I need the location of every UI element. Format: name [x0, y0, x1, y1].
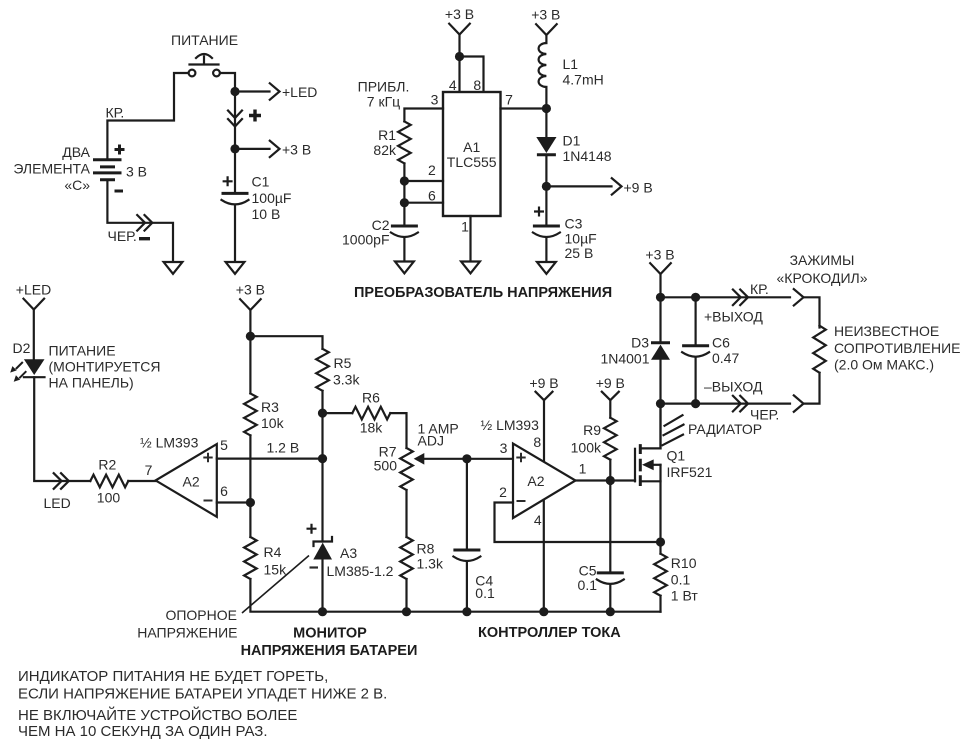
svg-text:+3 В: +3 В: [531, 7, 560, 23]
svg-text:+9 В: +9 В: [529, 375, 558, 391]
svg-text:ПИТАНИЕ: ПИТАНИЕ: [49, 343, 116, 359]
svg-text:5: 5: [220, 437, 228, 453]
svg-text:ПИТАНИЕ: ПИТАНИЕ: [171, 32, 238, 48]
svg-text:2: 2: [499, 484, 507, 500]
svg-text:1.2 В: 1.2 В: [267, 440, 300, 456]
svg-text:ПРИБЛ.: ПРИБЛ.: [358, 79, 410, 95]
svg-text:A1: A1: [463, 139, 480, 155]
svg-text:(2.0 Ом МАКС.): (2.0 Ом МАКС.): [834, 357, 934, 373]
svg-text:1N4148: 1N4148: [563, 148, 612, 164]
svg-text:2: 2: [428, 162, 436, 178]
svg-text:0.47: 0.47: [712, 350, 739, 366]
svg-text:3: 3: [431, 92, 439, 108]
svg-text:НЕ ВКЛЮЧАЙТЕ УСТРОЙСТВО БОЛЕЕ: НЕ ВКЛЮЧАЙТЕ УСТРОЙСТВО БОЛЕЕ: [18, 706, 297, 724]
svg-text:+3 В: +3 В: [645, 247, 674, 263]
svg-text:ЧЕР.: ЧЕР.: [750, 407, 779, 423]
svg-text:+3 В: +3 В: [282, 142, 311, 158]
svg-text:7: 7: [145, 462, 153, 478]
svg-text:+3 В: +3 В: [236, 282, 265, 298]
svg-text:НАПРЯЖЕНИЕ: НАПРЯЖЕНИЕ: [137, 625, 237, 641]
svg-text:C1: C1: [252, 174, 270, 190]
svg-text:D3: D3: [631, 335, 649, 351]
svg-text:8: 8: [533, 434, 541, 450]
svg-text:10k: 10k: [261, 415, 285, 431]
svg-text:СОПРОТИВЛЕНИЕ: СОПРОТИВЛЕНИЕ: [834, 340, 961, 356]
svg-text:КОНТРОЛЛЕР ТОКА: КОНТРОЛЛЕР ТОКА: [478, 625, 621, 641]
svg-text:6: 6: [428, 188, 436, 204]
svg-text:7: 7: [505, 92, 513, 108]
svg-text:ЗАЖИМЫ: ЗАЖИМЫ: [790, 252, 855, 268]
svg-text:1: 1: [461, 219, 469, 235]
svg-text:ЧЕР.: ЧЕР.: [108, 228, 137, 244]
svg-text:½ LM393: ½ LM393: [481, 417, 540, 433]
svg-text:0.1: 0.1: [475, 585, 495, 601]
svg-text:R9: R9: [583, 422, 601, 438]
svg-text:500: 500: [374, 458, 398, 474]
svg-text:МОНИТОР: МОНИТОР: [293, 626, 367, 642]
svg-text:100k: 100k: [571, 440, 602, 456]
svg-text:+9 В: +9 В: [596, 375, 625, 391]
svg-text:7 кГц: 7 кГц: [367, 94, 400, 110]
svg-text:C6: C6: [712, 335, 730, 351]
svg-text:ОПОРНОЕ: ОПОРНОЕ: [165, 607, 237, 623]
svg-text:«КРОКОДИЛ»: «КРОКОДИЛ»: [777, 270, 868, 286]
svg-text:1N4001: 1N4001: [600, 351, 649, 367]
svg-text:НЕИЗВЕСТНОЕ: НЕИЗВЕСТНОЕ: [834, 323, 939, 339]
svg-text:3.3k: 3.3k: [333, 372, 360, 388]
svg-text:+LED: +LED: [16, 282, 51, 298]
svg-text:R2: R2: [98, 457, 116, 473]
svg-text:0.1: 0.1: [578, 577, 598, 593]
svg-text:4: 4: [449, 77, 457, 93]
svg-text:РАДИАТОР: РАДИАТОР: [688, 421, 762, 437]
svg-text:25 В: 25 В: [565, 245, 594, 261]
svg-text:–ВЫХОД: –ВЫХОД: [704, 379, 763, 395]
svg-text:D1: D1: [563, 133, 581, 149]
svg-text:D2: D2: [13, 340, 31, 356]
svg-text:«С»: «С»: [64, 177, 90, 193]
svg-text:3 В: 3 В: [126, 164, 147, 180]
svg-text:R6: R6: [362, 390, 380, 406]
svg-text:4.7mH: 4.7mH: [563, 72, 604, 88]
svg-text:A2: A2: [183, 474, 200, 490]
svg-text:R8: R8: [417, 541, 435, 557]
svg-text:100µF: 100µF: [252, 190, 292, 206]
svg-text:R3: R3: [261, 399, 279, 415]
svg-text:LM385-1.2: LM385-1.2: [327, 563, 394, 579]
svg-text:4: 4: [534, 512, 542, 528]
svg-text:½ LM393: ½ LM393: [140, 435, 199, 451]
svg-text:НАПРЯЖЕНИЯ БАТАРЕИ: НАПРЯЖЕНИЯ БАТАРЕИ: [241, 643, 418, 659]
svg-text:R5: R5: [334, 355, 352, 371]
svg-text:ЕСЛИ НАПРЯЖЕНИЕ БАТАРЕИ УПАДЕТ: ЕСЛИ НАПРЯЖЕНИЕ БАТАРЕИ УПАДЕТ НИЖЕ 2 В.: [18, 686, 387, 703]
svg-text:L1: L1: [563, 56, 579, 72]
svg-text:82k: 82k: [373, 142, 397, 158]
svg-text:+3 В: +3 В: [445, 6, 474, 22]
svg-text:КР.: КР.: [106, 105, 125, 121]
svg-text:ЧЕМ НА 10 СЕКУНД ЗА ОДИН РАЗ.: ЧЕМ НА 10 СЕКУНД ЗА ОДИН РАЗ.: [18, 723, 268, 740]
svg-text:15k: 15k: [264, 562, 288, 578]
svg-text:100: 100: [97, 490, 121, 506]
svg-text:Q1: Q1: [667, 448, 686, 464]
svg-text:+9 В: +9 В: [624, 180, 653, 196]
svg-text:R10: R10: [671, 555, 697, 571]
svg-text:1 Вт: 1 Вт: [671, 588, 699, 604]
svg-text:R1: R1: [378, 127, 396, 143]
svg-text:10 В: 10 В: [252, 206, 281, 222]
svg-text:ПРЕОБРАЗОВАТЕЛЬ НАПРЯЖЕНИЯ: ПРЕОБРАЗОВАТЕЛЬ НАПРЯЖЕНИЯ: [354, 285, 612, 301]
svg-text:ИНДИКАТОР ПИТАНИЯ НЕ БУДЕТ ГОР: ИНДИКАТОР ПИТАНИЯ НЕ БУДЕТ ГОРЕТЬ,: [18, 668, 328, 685]
svg-text:НА ПАНЕЛЬ): НА ПАНЕЛЬ): [49, 375, 134, 391]
svg-text:8: 8: [473, 77, 481, 93]
svg-text:6: 6: [220, 483, 228, 499]
svg-text:+LED: +LED: [282, 84, 317, 100]
svg-text:3: 3: [500, 440, 508, 456]
svg-text:TLC555: TLC555: [447, 154, 497, 170]
svg-text:ADJ: ADJ: [418, 433, 444, 449]
svg-text:1000pF: 1000pF: [342, 232, 389, 248]
svg-text:(МОНТИРУЕТСЯ: (МОНТИРУЕТСЯ: [49, 359, 161, 375]
svg-text:R4: R4: [264, 544, 282, 560]
svg-text:IRF521: IRF521: [667, 464, 713, 480]
svg-text:A3: A3: [340, 545, 357, 561]
svg-text:1: 1: [579, 461, 587, 477]
svg-text:ЭЛЕМЕНТА: ЭЛЕМЕНТА: [13, 160, 90, 176]
svg-text:LED: LED: [44, 495, 71, 511]
svg-text:КР.: КР.: [750, 281, 769, 297]
svg-text:18k: 18k: [360, 420, 384, 436]
svg-text:ДВА: ДВА: [62, 144, 90, 160]
svg-text:1.3k: 1.3k: [417, 556, 444, 572]
svg-text:0.1: 0.1: [671, 572, 691, 588]
svg-text:C3: C3: [565, 216, 583, 232]
svg-text:A2: A2: [527, 473, 544, 489]
svg-text:+ВЫХОД: +ВЫХОД: [704, 309, 763, 325]
